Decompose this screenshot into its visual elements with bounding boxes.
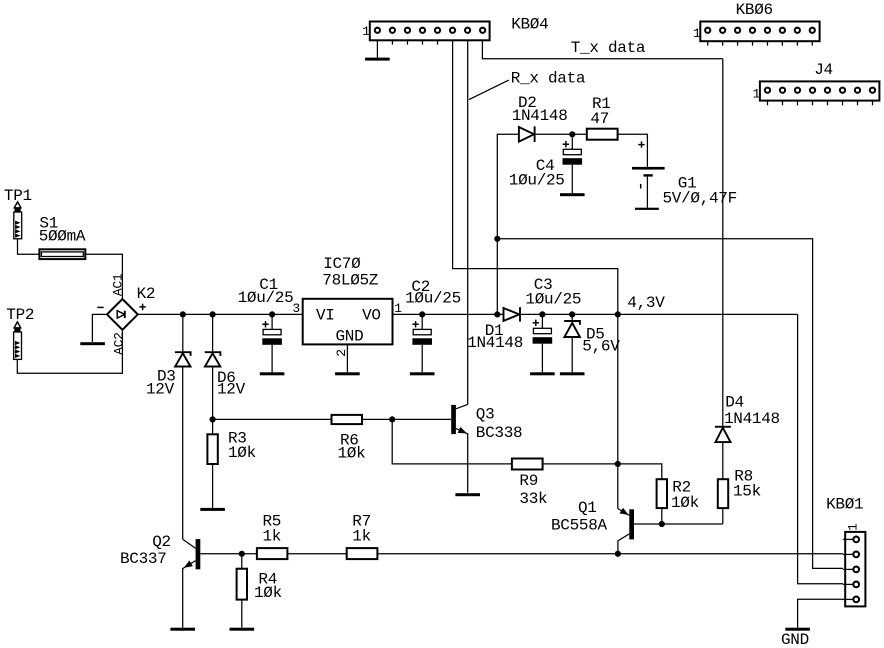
diode D1	[467, 307, 523, 352]
wire TP2 to bridge AC2	[17, 330, 122, 373]
capacitor C2	[405, 278, 461, 372]
wire T_x data net	[482, 40, 722, 59]
wire T_x net down to D4	[722, 59, 724, 426]
bridge rectifier K2	[97, 273, 155, 355]
node junction D6/R3/R6	[210, 416, 216, 422]
ground	[785, 628, 810, 631]
svg-text:1Øu/25: 1Øu/25	[238, 289, 294, 307]
resistor R3	[207, 419, 256, 508]
wire R1 to G1	[618, 134, 648, 167]
transistor Q1 BC558A	[551, 499, 662, 554]
resistor R7	[347, 513, 378, 559]
svg-text:1N4148: 1N4148	[467, 334, 523, 352]
transistor Q2 BC337	[120, 533, 200, 628]
svg-text:R9: R9	[519, 472, 538, 490]
wire KB04 pin1 to ground	[376, 40, 378, 57]
wire D6 to R3/R6 node	[212, 367, 214, 420]
svg-text:GND: GND	[336, 327, 364, 345]
svg-text:1N4148: 1N4148	[512, 107, 568, 125]
svg-text:BC558A: BC558A	[551, 517, 608, 535]
svg-text:Q2: Q2	[152, 533, 171, 551]
wire D2 anode net	[497, 134, 519, 314]
diode D2	[512, 94, 568, 142]
svg-text:1: 1	[693, 26, 701, 41]
svg-text:1Øk: 1Øk	[254, 584, 282, 602]
wire KB04 pin7 to Q3 collector	[467, 40, 469, 404]
wire R9 to Q1 emitter node	[543, 463, 618, 465]
wire R5 to R7	[287, 553, 346, 555]
ground	[560, 372, 585, 375]
node junction Q1 base / R2	[659, 521, 665, 527]
zener diode D3	[146, 311, 191, 398]
wire TP1 to fuse	[18, 239, 40, 254]
diode D4	[715, 394, 780, 442]
wire bridge plus to IC70 VI	[138, 313, 303, 315]
svg-text:AC1: AC1	[111, 273, 126, 296]
wire R_x data pointer	[469, 80, 509, 100]
wire Q2 base to R5	[200, 553, 257, 555]
ground	[530, 372, 555, 375]
svg-text:4,3V: 4,3V	[627, 294, 665, 312]
test point TP1	[4, 187, 32, 239]
battery G1	[632, 141, 737, 210]
svg-text:VO: VO	[362, 306, 381, 324]
svg-text:12V: 12V	[217, 380, 246, 398]
fuse S1	[39, 214, 86, 259]
svg-text:K2: K2	[137, 285, 156, 303]
test point TP2	[6, 306, 34, 359]
capacitor C4	[509, 134, 582, 193]
wire 4,3V rail down to Q1 emitter	[617, 314, 619, 508]
svg-text:BC337: BC337	[120, 550, 167, 568]
svg-text:R_x data: R_x data	[511, 70, 586, 88]
resistor R6	[332, 415, 366, 463]
ground	[560, 193, 585, 196]
svg-text:1: 1	[394, 301, 402, 316]
svg-text:1Øk: 1Øk	[338, 444, 366, 462]
resistor R4	[237, 554, 282, 628]
svg-text:TP2: TP2	[6, 306, 34, 324]
svg-text:IC7Ø: IC7Ø	[323, 255, 361, 273]
node T_x data label	[571, 39, 646, 57]
svg-text:1Øk: 1Øk	[228, 444, 256, 462]
svg-text:1Øu/25: 1Øu/25	[509, 171, 565, 189]
wire Q1 node to R2	[618, 464, 662, 479]
svg-text:5V/Ø,47F: 5V/Ø,47F	[663, 190, 737, 208]
svg-text:47: 47	[590, 110, 609, 128]
svg-text:78LØ5Z: 78LØ5Z	[322, 271, 379, 289]
ground	[335, 372, 360, 375]
wire bridge minus to ground	[92, 314, 107, 342]
wire R6 to Q3 base node	[362, 418, 392, 420]
node junction on D2/D1 net	[494, 236, 500, 242]
ground	[410, 372, 435, 375]
svg-text:AC2: AC2	[112, 332, 127, 355]
svg-text:D4: D4	[725, 394, 744, 412]
svg-text:1k: 1k	[352, 528, 371, 546]
op-amp U1 voltage regulator IC70 78L05Z	[292, 255, 402, 357]
svg-text:1N4148: 1N4148	[724, 410, 780, 428]
node R_x data label	[511, 70, 586, 88]
resistor R8	[718, 467, 761, 524]
wire R7 to KB01 pin2	[377, 553, 843, 555]
svg-text:VI: VI	[316, 306, 335, 324]
svg-text:5ØØmA: 5ØØmA	[39, 227, 86, 245]
svg-text:J4: J4	[814, 61, 833, 79]
wire KB01 pin5 to ground	[798, 599, 843, 628]
wire KB04 pin6 to 4,3V rail	[453, 40, 618, 314]
svg-text:33k: 33k	[519, 490, 547, 508]
zener diode D5	[564, 311, 620, 372]
transistor Q3 BC338	[451, 404, 522, 492]
svg-text:KBØ6: KBØ6	[736, 1, 773, 19]
node 4,3V label	[627, 294, 665, 312]
wire Q3 base node down to R9 line	[392, 419, 512, 464]
node junction Q1 emitter	[615, 461, 621, 467]
wire D2 net to KB01 pin3	[497, 239, 843, 569]
svg-text:KBØ1: KBØ1	[826, 495, 863, 513]
svg-text:Q3: Q3	[476, 405, 495, 423]
svg-text:1Øk: 1Øk	[671, 494, 699, 512]
svg-text:1k: 1k	[263, 528, 282, 546]
svg-text:KBØ4: KBØ4	[511, 16, 548, 34]
wire IC70 VO to D1	[393, 313, 504, 315]
wire D6 node to R6	[213, 418, 332, 420]
ground	[365, 58, 390, 61]
capacitor C3	[525, 276, 581, 373]
capacitor C1	[238, 276, 294, 373]
connector KB04	[362, 16, 548, 45]
node junction on rail at D1 anode	[494, 311, 500, 317]
connector J4	[753, 61, 880, 106]
ground	[260, 372, 285, 375]
ground	[230, 628, 255, 631]
resistor R5	[257, 513, 288, 559]
node GND label	[781, 631, 809, 648]
node junction Q1 collector on rail	[615, 551, 621, 557]
connector KB06	[693, 1, 820, 45]
svg-text:1: 1	[753, 87, 761, 102]
wire IC70 GND pin	[346, 344, 348, 372]
ground	[455, 493, 480, 496]
wire D1 to 4,3V rail	[520, 313, 798, 315]
svg-text:1: 1	[845, 523, 860, 531]
wire Q3 base	[392, 418, 451, 420]
node junction R4 tap	[239, 551, 245, 557]
wire D2 to R1	[535, 133, 587, 135]
svg-text:15k: 15k	[733, 483, 761, 501]
node junction Q3 base	[389, 416, 395, 422]
connector KB01	[826, 495, 865, 606]
wire D4 to R8	[722, 442, 724, 479]
svg-text:12V: 12V	[146, 380, 175, 398]
svg-text:3: 3	[292, 301, 300, 316]
resistor R1	[587, 95, 618, 140]
svg-text:BC338: BC338	[476, 424, 523, 442]
node junction 4,3V rail	[615, 311, 621, 317]
svg-text:1Øu/25: 1Øu/25	[405, 290, 461, 308]
ground	[200, 508, 225, 511]
resistor R2	[657, 478, 699, 524]
node junction C4 tap	[569, 131, 575, 137]
zener diode D6	[205, 311, 246, 398]
svg-text:GND: GND	[781, 631, 809, 648]
svg-text:Q1: Q1	[578, 499, 597, 517]
wire D3 to Q2 collector	[182, 367, 184, 540]
wire 4,3V rail to KB01 pin4	[798, 314, 843, 583]
svg-text:T_x data: T_x data	[571, 39, 646, 57]
svg-text:5,6V: 5,6V	[582, 337, 620, 355]
wire fuse to bridge AC1	[85, 254, 122, 299]
wire Q1 base to R8	[662, 523, 723, 525]
ground	[80, 342, 105, 345]
resistor R9	[512, 459, 547, 508]
svg-text:1Øu/25: 1Øu/25	[525, 290, 581, 308]
svg-text:1: 1	[362, 24, 370, 39]
ground	[170, 628, 195, 631]
